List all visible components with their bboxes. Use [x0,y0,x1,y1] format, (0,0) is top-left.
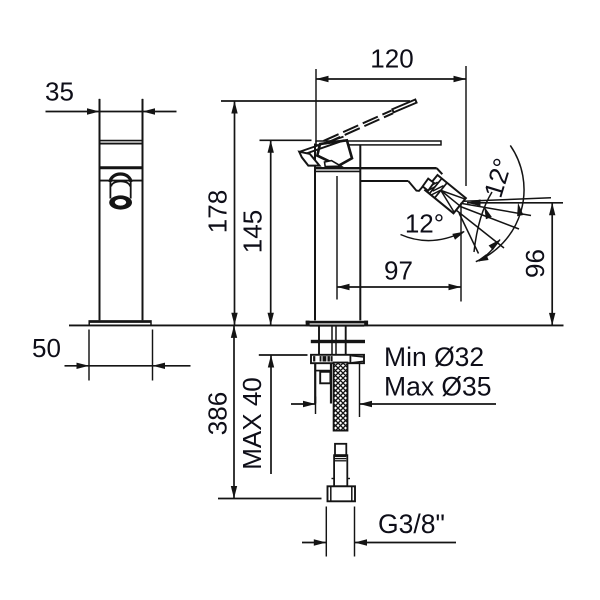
dimension 120 extension line right [465,66,467,186]
svg-text:97: 97 [384,256,413,286]
side view knob side lines [109,182,111,199]
large swivel arc with arrowheads [476,145,524,261]
svg-text:120: 120 [370,44,413,74]
front view spout top plate [316,141,441,145]
dimension 35 line and arrows [46,111,100,113]
front view spout underside line [360,180,408,182]
handle hub neck [325,161,342,167]
aerator collar band [423,179,434,191]
dimension 120 line and arrows [316,78,466,80]
stud cross line [315,370,331,372]
dimension MAX 40 line and arrow [270,355,272,474]
mounting surface ground line [69,324,564,326]
dimension 50 line and arrows [65,365,90,367]
dimension 97 extension line center [336,176,338,300]
svg-text:35: 35 [45,77,74,107]
svg-text:386: 386 [203,392,233,435]
front view spout mid to nozzle diagonal [437,168,443,174]
dimension 178 line and arrows [234,101,236,325]
svg-text:12°: 12° [405,209,444,239]
dimension 96 line and arrows [551,203,553,326]
svg-text:145: 145 [238,210,268,253]
dimension 97 extension line right [460,203,462,302]
svg-text:Min Ø32: Min Ø32 [384,342,484,372]
hose tubes inside shank [331,326,333,354]
svg-text:G3/8": G3/8" [378,509,445,539]
G3/8 connection nut [328,486,356,501]
dimension 178 top reference line [221,100,410,102]
threaded studs [314,363,316,404]
threaded shank right edge [345,326,347,354]
side view cap top line [100,140,143,142]
hole diameter dimension lines [315,397,317,415]
side view body outline [99,99,101,320]
nipple side ticks [332,478,335,480]
dimension 97 line and arrows [337,286,461,288]
svg-text:Max Ø35: Max Ø35 [384,372,492,402]
spray direction line lower 40deg [456,210,504,248]
handle lever solid bar [299,137,344,156]
front view body top second line [315,170,360,172]
aerator nozzle group [425,175,466,213]
hose end nipple top tube [335,444,346,455]
dimension G3/8 line and arrows [302,542,326,544]
mounting nut right clamp wedge [349,355,351,363]
spray direction line upper 13deg [462,204,531,216]
stud section box [320,372,330,384]
side view knob middle arc [111,181,130,186]
svg-text:MAX 40: MAX 40 [237,377,267,470]
side view band line [100,180,143,182]
front view body left edge [314,144,316,321]
handle raised position tip piece [392,100,416,113]
side view base plate [89,321,151,325]
threaded shank left edge [318,326,320,354]
side view cap second line [100,143,143,145]
handle hub pentagon [317,140,352,166]
braided hose [334,363,348,431]
side view knob top arc [110,174,131,182]
dimension MAX 40 reference line [259,354,308,356]
front view base plate [306,321,368,324]
dimension 386 line and arrows [233,325,235,498]
dimension 120 extension line left [315,69,317,143]
svg-text:178: 178 [203,190,233,233]
front view spout underside V notch [408,181,423,191]
svg-text:50: 50 [32,333,61,363]
side view knob front ring [109,195,132,209]
left 12 deg arc [401,232,465,241]
dimension 35 extension lines [99,99,101,140]
dimension G3/8 extension lines [325,507,327,557]
handle raised position dashed bar [324,111,392,141]
dimension 50 extension lines [88,330,90,381]
nipple lower tube [334,455,347,486]
dimension 145 line and arrows [270,140,272,325]
spray axis stub steep [459,213,479,254]
mounting nut band [311,355,364,363]
side view cartridge box bottom thick line [100,166,143,169]
nipple crimp rings [335,455,346,457]
angle reference horizontal line with arrow [467,202,563,204]
inner arc crossing line B [474,192,492,252]
front view spout mid line (body top) [315,167,437,169]
spray direction line middle 23deg [459,206,519,229]
svg-text:96: 96 [520,249,550,278]
lower 12deg arc with arrowhead [479,240,500,262]
dimension 386 bottom reference line [218,498,322,500]
front view body right edge [359,146,361,321]
handle lever end cap [299,152,319,166]
dimension 145 top reference line [260,139,312,141]
washer thick bar [311,340,365,343]
upper spray boundary line slightly above horizontal [464,198,551,202]
